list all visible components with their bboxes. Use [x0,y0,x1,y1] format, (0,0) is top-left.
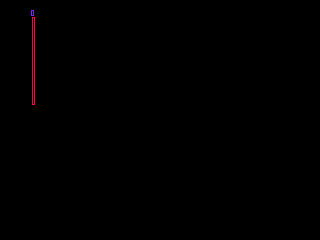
bar B1 (red outlined bar) [33,18,35,105]
label 0 (purple zero above bar) [32,11,34,16]
